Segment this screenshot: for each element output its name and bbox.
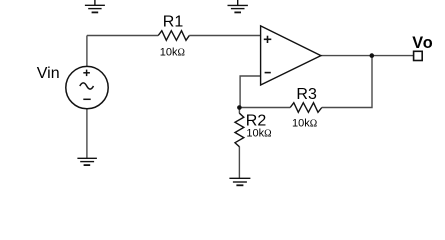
source Vin circle	[66, 66, 108, 108]
op-amp U1 triangle	[261, 26, 321, 85]
svg-text:R3: R3	[296, 86, 317, 103]
wire Vin bottom to ground	[86, 109, 88, 159]
wire op-amp output to Vo terminal	[321, 55, 414, 57]
wire R2 to ground	[238, 147, 240, 179]
ground (below R2)	[229, 178, 250, 185]
junction node output	[370, 53, 375, 58]
svg-text:R1: R1	[163, 13, 184, 30]
terminal Vo square	[414, 51, 423, 60]
resistor R2	[235, 113, 244, 147]
svg-text:10kΩ: 10kΩ	[160, 46, 185, 58]
wire R1 to op-amp + input	[189, 35, 260, 37]
wire Vin to R1	[87, 35, 158, 37]
wire R3 to right corner riser	[322, 56, 372, 108]
source Vin sine symbol	[80, 83, 94, 89]
ground (top right)	[228, 0, 248, 12]
op-amp minus input symbol	[265, 72, 271, 74]
junction node A (inverting input / R2 / R3)	[237, 105, 242, 110]
wire node A to R3	[239, 107, 290, 109]
svg-text:Vo: Vo	[412, 34, 433, 52]
ground (top left)	[85, 0, 105, 12]
resistor R3	[290, 103, 322, 113]
svg-text:10kΩ: 10kΩ	[246, 128, 271, 140]
svg-text:10kΩ: 10kΩ	[292, 117, 317, 129]
resistor R1	[158, 31, 189, 41]
svg-text:Vin: Vin	[37, 65, 60, 82]
wire Vin top vertical	[86, 36, 88, 67]
source Vin minus sign	[83, 98, 90, 100]
source Vin plus sign	[83, 70, 90, 77]
ground (below Vin)	[77, 158, 97, 165]
wire node A to R2	[238, 108, 240, 114]
op-amp plus input symbol	[264, 36, 272, 43]
wire op-amp - input to node A	[240, 76, 261, 108]
